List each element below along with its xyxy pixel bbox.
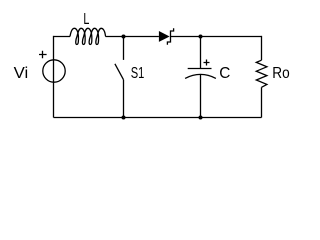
wire bottom bbox=[54, 117, 262, 119]
wire capacitor upper stub bbox=[200, 37, 202, 69]
wire top-middle: inductor to diode anode bbox=[106, 36, 159, 38]
wire right vertical upper bbox=[261, 36, 263, 60]
capacitor plus sign bbox=[204, 60, 210, 66]
diode D cathode bar with schottky hooks bbox=[167, 28, 173, 45]
svg-text:L: L bbox=[83, 11, 89, 28]
svg-text:C: C bbox=[219, 65, 230, 82]
node: junction dot top of capacitor bbox=[199, 35, 203, 39]
wire top-right: diode cathode to right corner bbox=[171, 36, 262, 38]
wire switch upper stub bbox=[123, 37, 125, 60]
svg-text:S1: S1 bbox=[131, 65, 145, 82]
wire top-left: source top to inductor bbox=[54, 36, 71, 38]
voltage source plus sign bbox=[39, 51, 47, 59]
svg-text:Ro: Ro bbox=[272, 65, 290, 82]
capacitor C bottom curved plate bbox=[185, 74, 216, 78]
wire switch lower stub bbox=[123, 80, 125, 118]
wire right vertical lower bbox=[261, 87, 263, 117]
node: junction dot bottom of capacitor bbox=[199, 116, 203, 120]
wire left vertical through source bbox=[53, 36, 55, 118]
svg-text:Vi: Vi bbox=[14, 65, 29, 82]
switch S1 blade bbox=[115, 64, 124, 80]
diode D triangle bbox=[159, 31, 170, 42]
node: junction dot top of switch bbox=[122, 35, 126, 39]
voltage source Vi circle bbox=[43, 60, 65, 82]
capacitor C top plate bbox=[188, 68, 212, 70]
wire capacitor lower stub bbox=[200, 75, 202, 118]
inductor L coil bbox=[70, 28, 106, 44]
resistor Ro zigzag bbox=[256, 60, 267, 87]
node: junction dot bottom of switch bbox=[122, 116, 126, 120]
